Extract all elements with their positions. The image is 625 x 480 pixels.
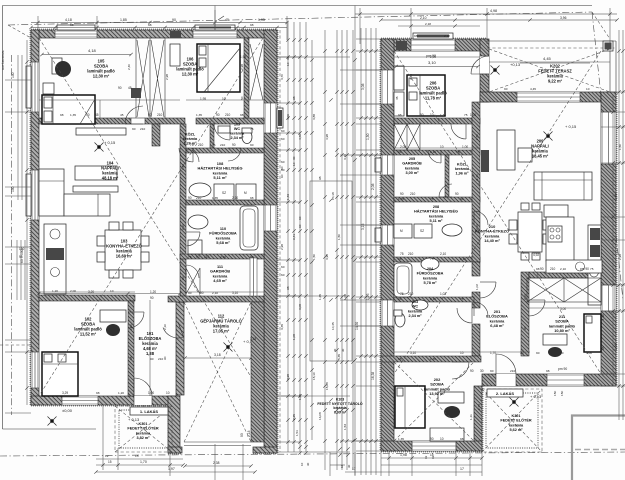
svg-text:2,98: 2,98 xyxy=(280,244,284,250)
hall-utility partition x180 xyxy=(180,124,186,302)
svg-text:150: 150 xyxy=(553,391,557,396)
dim 3.10 room206 xyxy=(394,54,479,68)
svg-text:1,50: 1,50 xyxy=(312,254,316,260)
middle column dimension lines xyxy=(280,22,355,470)
svg-text:3,70: 3,70 xyxy=(343,154,347,160)
svg-text:90: 90 xyxy=(470,369,474,373)
svg-text:1. LAKÁS: 1. LAKÁS xyxy=(140,409,159,414)
room 203 WC label xyxy=(408,300,423,318)
svg-text:1,53: 1,53 xyxy=(295,430,299,436)
svg-text:90: 90 xyxy=(181,276,185,280)
svg-text:205: 205 xyxy=(409,157,415,161)
svg-text:SZ: SZ xyxy=(420,229,424,233)
room HAZTARTASI label xyxy=(198,161,243,180)
svg-text:90: 90 xyxy=(536,351,540,355)
svg-text:2,18: 2,18 xyxy=(444,34,450,38)
top dimension lines right building xyxy=(355,8,619,44)
svg-text:pm 90: pm 90 xyxy=(558,367,567,371)
utility washer dryer xyxy=(214,184,256,200)
svg-text:210: 210 xyxy=(550,267,556,271)
svg-text:FEDETT ELŐTÉR: FEDETT ELŐTÉR xyxy=(500,418,531,423)
door gardrob xyxy=(186,265,199,278)
far right extra xyxy=(601,92,625,386)
room WC label xyxy=(230,122,245,140)
bathroom tub xyxy=(240,206,258,250)
svg-text:2,98: 2,98 xyxy=(165,74,169,80)
svg-text:15: 15 xyxy=(108,460,112,464)
svg-text:90: 90 xyxy=(132,127,136,131)
svg-text:1,08: 1,08 xyxy=(343,294,347,300)
right edge dimension lines xyxy=(614,30,625,420)
bathroom wm xyxy=(188,240,202,254)
room 110 FURDOSZOBA label xyxy=(209,226,237,245)
svg-text:10,45: 10,45 xyxy=(331,322,335,330)
svg-text:WC: WC xyxy=(234,127,241,131)
svg-text:kerámia: kerámia xyxy=(429,214,444,218)
right building room202 bottom wall xyxy=(381,441,482,451)
svg-text:1,85: 1,85 xyxy=(120,18,127,22)
window left wall living 1 xyxy=(31,62,39,112)
svg-text:1,20: 1,20 xyxy=(52,289,58,293)
tick crosses middle xyxy=(329,58,356,441)
svg-text:98: 98 xyxy=(398,113,402,117)
window left wall bedroom102 xyxy=(31,352,39,388)
svg-text:10: 10 xyxy=(560,351,564,355)
svg-text:SZ: SZ xyxy=(222,191,226,195)
level +0.15 left xyxy=(95,140,117,152)
window top wall room206 xyxy=(411,33,455,51)
sofa nappali xyxy=(534,172,592,200)
window left wall room206 xyxy=(381,70,394,104)
svg-text:kerámia: kerámia xyxy=(136,431,151,435)
garage left wall upper xyxy=(176,302,184,395)
insulation dots left building xyxy=(30,29,278,454)
room202 diagonal X xyxy=(394,362,474,441)
door room202 xyxy=(452,362,469,379)
garage side door arc xyxy=(163,322,184,338)
svg-text:+ 0,15: + 0,15 xyxy=(565,124,577,129)
svg-text:WC: WC xyxy=(412,305,419,309)
svg-text:14,18: 14,18 xyxy=(331,192,335,200)
porch label text xyxy=(127,422,158,440)
garage right lining wall xyxy=(251,302,264,442)
wardrobe strip between bedrooms xyxy=(136,38,165,118)
svg-text:90: 90 xyxy=(150,357,154,361)
svg-text:30: 30 xyxy=(520,351,524,355)
bed bedroom106 xyxy=(197,44,240,92)
top dimension lines left building xyxy=(29,10,288,40)
tv bench living xyxy=(73,128,126,192)
svg-text:1,08: 1,08 xyxy=(292,334,296,340)
svg-text:48,18 m²: 48,18 m² xyxy=(102,176,119,181)
svg-text:2,34 m²: 2,34 m² xyxy=(230,136,244,140)
door bedroom102 xyxy=(128,312,144,328)
svg-text:2,10: 2,10 xyxy=(129,324,133,330)
svg-text:3,18: 3,18 xyxy=(214,353,221,357)
svg-text:98: 98 xyxy=(318,176,322,180)
svg-text:12: 12 xyxy=(105,454,109,458)
svg-text:45: 45 xyxy=(225,18,229,22)
svg-text:60: 60 xyxy=(280,174,284,178)
chimney block xyxy=(131,88,141,98)
svg-text:FÜRDŐSZOBA: FÜRDŐSZOBA xyxy=(417,271,444,276)
left building outer wall bottom xyxy=(31,396,177,405)
svg-text:3,00: 3,00 xyxy=(586,351,592,355)
svg-text:kerámia: kerámia xyxy=(423,276,438,280)
room 106 SZOBA label xyxy=(176,57,204,77)
svg-text:HÁZTARTÁSI HELYISÉG: HÁZTARTÁSI HELYISÉG xyxy=(414,209,458,214)
dresser bedroom106 xyxy=(170,44,180,66)
svg-text:K103: K103 xyxy=(336,397,344,401)
wardrobe band top-right room xyxy=(249,44,263,100)
svg-text:2,10: 2,10 xyxy=(440,252,446,256)
svg-text:90: 90 xyxy=(250,143,254,147)
svg-text:2,40: 2,40 xyxy=(127,64,131,70)
svg-text:10: 10 xyxy=(222,97,226,101)
svg-text:+ 0,13: + 0,13 xyxy=(530,394,542,399)
svg-text:30: 30 xyxy=(341,348,345,352)
svg-text:9,22 m²: 9,22 m² xyxy=(548,79,563,84)
bottom dimension lines right xyxy=(345,441,625,476)
window right wall room211 xyxy=(601,285,616,311)
svg-text:5,11 m²: 5,11 m² xyxy=(213,175,227,180)
svg-text:1,20: 1,20 xyxy=(118,391,124,395)
svg-text:FEDETT NYITOTT TÁROLÓ: FEDETT NYITOTT TÁROLÓ xyxy=(317,401,363,406)
svg-text:2,18: 2,18 xyxy=(247,430,251,437)
svg-text:2,10: 2,10 xyxy=(163,324,167,330)
svg-text:75: 75 xyxy=(464,113,468,117)
door bathroom xyxy=(186,232,200,246)
svg-text:2,25: 2,25 xyxy=(292,414,296,420)
svg-text:90: 90 xyxy=(232,143,236,147)
site boundary dash-dot right xyxy=(592,12,623,300)
bottom dimension lines left xyxy=(94,405,256,480)
svg-text:FEDETT ELŐTÉR: FEDETT ELŐTÉR xyxy=(127,426,158,431)
svg-text:60: 60 xyxy=(298,224,302,228)
chimney top wall left building xyxy=(170,31,181,38)
terrace label xyxy=(538,64,572,84)
porch right diagonal X xyxy=(482,389,542,452)
wall under KOZL WC y150 xyxy=(186,148,264,153)
neighbor boundary thick gray L xyxy=(572,416,625,480)
svg-text:10: 10 xyxy=(300,462,304,466)
svg-text:98: 98 xyxy=(250,23,254,27)
room 201 ELOSZOBA label xyxy=(486,309,508,328)
svg-text:1,88: 1,88 xyxy=(146,351,155,356)
svg-text:3,00: 3,00 xyxy=(560,307,566,311)
svg-text:3,29: 3,29 xyxy=(62,391,68,395)
svg-text:210: 210 xyxy=(157,113,163,117)
svg-text:16,38: 16,38 xyxy=(371,372,375,380)
room 112 garage label xyxy=(200,314,242,334)
svg-text:12,30 m²: 12,30 m² xyxy=(182,72,199,77)
bathroom sink xyxy=(188,215,208,229)
svg-text:1,35: 1,35 xyxy=(398,437,404,441)
svg-text:4,92: 4,92 xyxy=(533,253,539,257)
nappali level star xyxy=(544,124,578,141)
right building wall room206-terrace xyxy=(480,39,489,102)
svg-text:2,18: 2,18 xyxy=(425,22,431,26)
door utility xyxy=(186,149,199,162)
svg-text:75: 75 xyxy=(250,127,254,131)
porch dashed outline right xyxy=(482,389,542,452)
bed bedroom105 xyxy=(42,95,95,124)
gardrob window niche xyxy=(250,258,257,296)
svg-text:10: 10 xyxy=(440,437,444,441)
KOZL-WC partition xyxy=(210,124,214,150)
svg-text:92: 92 xyxy=(424,455,428,459)
svg-text:5,35: 5,35 xyxy=(337,354,341,360)
partition right of bedroom106 xyxy=(244,38,249,118)
svg-text:1,49: 1,49 xyxy=(286,194,290,200)
svg-text:210: 210 xyxy=(198,143,204,147)
svg-text:4,45: 4,45 xyxy=(543,56,552,61)
svg-text:4,70: 4,70 xyxy=(298,134,302,140)
svg-text:10,80 m²: 10,80 m² xyxy=(554,328,570,333)
svg-text:1,50: 1,50 xyxy=(618,144,622,150)
svg-text:2. LAKÁS: 2. LAKÁS xyxy=(496,391,515,396)
svg-text:75: 75 xyxy=(188,255,192,259)
svg-text:90: 90 xyxy=(118,86,122,90)
svg-text:98: 98 xyxy=(398,357,402,361)
dims under window 211 xyxy=(553,367,567,396)
garage diagonal X xyxy=(184,302,251,442)
kitchen counter left xyxy=(44,224,66,294)
chair bedroom105 xyxy=(52,58,71,77)
svg-text:90: 90 xyxy=(490,369,494,373)
svg-text:1,95: 1,95 xyxy=(240,55,246,59)
svg-text:98: 98 xyxy=(60,113,64,117)
bed room202 xyxy=(395,386,425,428)
wall szoba211 top y272 xyxy=(529,272,601,278)
svg-text:2,10: 2,10 xyxy=(560,267,566,271)
svg-text:3,70: 3,70 xyxy=(280,74,284,80)
svg-text:98: 98 xyxy=(286,286,290,290)
svg-text:1,26: 1,26 xyxy=(181,164,185,170)
svg-text:1,00: 1,00 xyxy=(462,145,468,149)
svg-text:10: 10 xyxy=(430,113,434,117)
60 60 labels right wall xyxy=(281,129,285,277)
svg-text:92: 92 xyxy=(431,455,435,459)
svg-text:98: 98 xyxy=(19,255,23,259)
svg-text:90: 90 xyxy=(455,192,459,196)
right building outer wall right xyxy=(601,92,616,386)
svg-text:60: 60 xyxy=(281,265,285,269)
door bath2 xyxy=(480,282,496,298)
interior dims pass2 xyxy=(52,34,594,441)
svg-text:90: 90 xyxy=(240,433,244,437)
window top wall bedroom106 with sill xyxy=(193,25,237,38)
left building outer wall left xyxy=(31,30,39,405)
corridor wall stub xyxy=(152,124,160,146)
left building outer wall top xyxy=(31,30,277,38)
left column dimension lines xyxy=(5,40,31,405)
svg-text:75: 75 xyxy=(400,252,404,256)
svg-text:90: 90 xyxy=(163,356,167,360)
svg-text:18,45 m²: 18,45 m² xyxy=(532,154,549,159)
right building room202 right wall xyxy=(474,386,482,451)
svg-text:4,65 m²: 4,65 m² xyxy=(213,278,227,283)
svg-text:90: 90 xyxy=(540,267,544,271)
svg-text:3,10: 3,10 xyxy=(410,351,416,355)
left column extra lines bottom xyxy=(0,240,31,413)
svg-text:210: 210 xyxy=(140,127,145,131)
misc extension lines interior xyxy=(1,50,610,396)
door wc xyxy=(228,148,241,161)
tick clusters under carport xyxy=(295,348,351,468)
svg-text:3,82 m²: 3,82 m² xyxy=(136,436,150,440)
site boundary dash-dot left xyxy=(11,55,13,415)
site boundary dash-dot bottom xyxy=(0,452,625,456)
svg-text:kerámia: kerámia xyxy=(405,166,420,170)
svg-text:98: 98 xyxy=(536,267,540,271)
svg-text:30: 30 xyxy=(306,462,310,466)
svg-text:10: 10 xyxy=(586,87,590,91)
interior dim numbers scatter xyxy=(62,55,589,441)
svg-text:90: 90 xyxy=(188,291,192,295)
svg-text:30: 30 xyxy=(333,348,337,352)
entrance arc right building xyxy=(496,354,516,374)
svg-text:45: 45 xyxy=(128,86,132,90)
svg-text:2,10: 2,10 xyxy=(460,257,466,261)
svg-text:210: 210 xyxy=(410,192,416,196)
svg-text:1,65: 1,65 xyxy=(318,294,322,300)
svg-text:2,34 m²: 2,34 m² xyxy=(408,314,422,318)
left building outer wall right xyxy=(264,30,277,453)
sofa living L-shape xyxy=(39,169,110,216)
porch dashed outline left xyxy=(115,406,172,452)
svg-text:90: 90 xyxy=(86,113,90,117)
wall bath-wardrobe y262 xyxy=(180,254,264,259)
svg-text:30: 30 xyxy=(480,369,484,373)
svg-text:2,10: 2,10 xyxy=(430,150,436,154)
svg-text:2,10: 2,10 xyxy=(232,196,238,200)
svg-text:1,65: 1,65 xyxy=(298,394,302,400)
svg-text:1,35: 1,35 xyxy=(70,113,76,117)
door room206 xyxy=(451,124,466,139)
room 111 GARDROB label xyxy=(210,264,230,283)
2. LAKAS label box xyxy=(487,389,523,397)
svg-text:1,70: 1,70 xyxy=(140,460,147,464)
svg-text:10: 10 xyxy=(166,391,170,395)
window left wall gardrob xyxy=(375,155,394,175)
svg-text:3,98: 3,98 xyxy=(286,374,290,380)
dim 4.18 bedroom105 xyxy=(40,48,132,90)
svg-text:98: 98 xyxy=(70,23,74,27)
svg-text:1,35: 1,35 xyxy=(440,113,446,117)
desk room211 xyxy=(543,334,567,357)
chimney top wall right building xyxy=(396,41,407,50)
svg-text:98: 98 xyxy=(601,346,605,350)
svg-text:75: 75 xyxy=(430,257,434,261)
svg-text:75: 75 xyxy=(590,267,594,271)
svg-text:2,98: 2,98 xyxy=(240,64,244,70)
svg-text:4,45: 4,45 xyxy=(530,87,536,91)
shutter boxes outside left wall xyxy=(26,66,31,216)
svg-text:+0,13: +0,13 xyxy=(510,62,521,67)
svg-text:4,06: 4,06 xyxy=(286,114,290,120)
svg-text:1,95: 1,95 xyxy=(258,18,265,22)
room 208 HAZTARTASI label xyxy=(414,205,458,223)
svg-text:3,00 m²: 3,00 m² xyxy=(405,171,419,175)
utility sink oval xyxy=(189,183,211,197)
svg-text:90: 90 xyxy=(398,297,402,301)
sink bathroom2 xyxy=(421,258,439,270)
bed bedroom102 xyxy=(42,352,78,396)
svg-text:98: 98 xyxy=(546,369,550,373)
svg-text:kerámia: kerámia xyxy=(509,423,524,427)
toilet wc2 xyxy=(394,300,428,327)
svg-text:15,68: 15,68 xyxy=(325,382,329,390)
svg-text:98: 98 xyxy=(240,113,244,117)
wc toilet xyxy=(242,128,252,144)
gardrob shelves xyxy=(186,268,200,294)
svg-text:75: 75 xyxy=(190,143,194,147)
door bedroom106 xyxy=(214,124,230,140)
porch diagonal X left xyxy=(115,406,172,452)
room 103 KONYHA label xyxy=(106,239,143,259)
svg-text:1,96 m²: 1,96 m² xyxy=(455,172,469,176)
svg-text:75: 75 xyxy=(212,143,216,147)
svg-text:3,18: 3,18 xyxy=(250,337,256,341)
svg-text:2,00: 2,00 xyxy=(400,145,406,149)
svg-text:210: 210 xyxy=(408,292,414,296)
svg-text:6,48 m²: 6,48 m² xyxy=(490,323,504,328)
svg-text:3,35: 3,35 xyxy=(280,324,284,330)
wall under room206 xyxy=(394,118,480,124)
svg-text:1,97: 1,97 xyxy=(168,467,175,471)
svg-text:HATÁRVONAL: HATÁRVONAL xyxy=(1,50,5,70)
svg-text:90: 90 xyxy=(172,18,176,22)
svg-text:90: 90 xyxy=(250,255,254,259)
terrace edge lines xyxy=(487,41,616,92)
porch right level xyxy=(510,394,543,407)
svg-text:3,08: 3,08 xyxy=(298,304,302,310)
svg-text:210: 210 xyxy=(510,369,515,373)
bed room211 xyxy=(584,314,601,352)
kitchen counter right wall xyxy=(546,225,602,305)
room 101 ELOSZOBA label xyxy=(139,331,162,356)
svg-text:16,08: 16,08 xyxy=(318,412,322,420)
right building outer wall top xyxy=(381,39,487,51)
carport rectangle between buildings xyxy=(310,181,352,361)
porch level marker xyxy=(48,408,141,426)
door living wide opening xyxy=(131,118,145,124)
svg-text:2,00: 2,00 xyxy=(70,289,76,293)
svg-text:98: 98 xyxy=(148,23,152,27)
svg-text:60: 60 xyxy=(298,216,302,220)
svg-text:98: 98 xyxy=(398,257,402,261)
right building roof diagonal 2 xyxy=(394,51,601,374)
svg-text:3,10: 3,10 xyxy=(232,291,238,295)
svg-text:1,08: 1,08 xyxy=(614,343,618,350)
door kozl2 xyxy=(439,184,452,197)
svg-text:45: 45 xyxy=(120,113,124,117)
svg-text:2,40: 2,40 xyxy=(409,74,413,80)
svg-text:3,16: 3,16 xyxy=(361,223,365,230)
svg-text:90: 90 xyxy=(460,197,464,201)
wall utility-bath y202 xyxy=(186,200,264,205)
svg-text:210: 210 xyxy=(220,143,225,147)
svg-text:90: 90 xyxy=(420,113,424,117)
window right wall bathroom xyxy=(264,205,277,231)
left building garage left wall xyxy=(168,396,180,453)
svg-text:K301: K301 xyxy=(511,414,520,418)
door wc2 side xyxy=(457,308,472,323)
right building connector horizontals xyxy=(356,39,381,451)
wall gardrob bottom y197 xyxy=(394,197,480,202)
svg-text:109: 109 xyxy=(234,122,240,126)
